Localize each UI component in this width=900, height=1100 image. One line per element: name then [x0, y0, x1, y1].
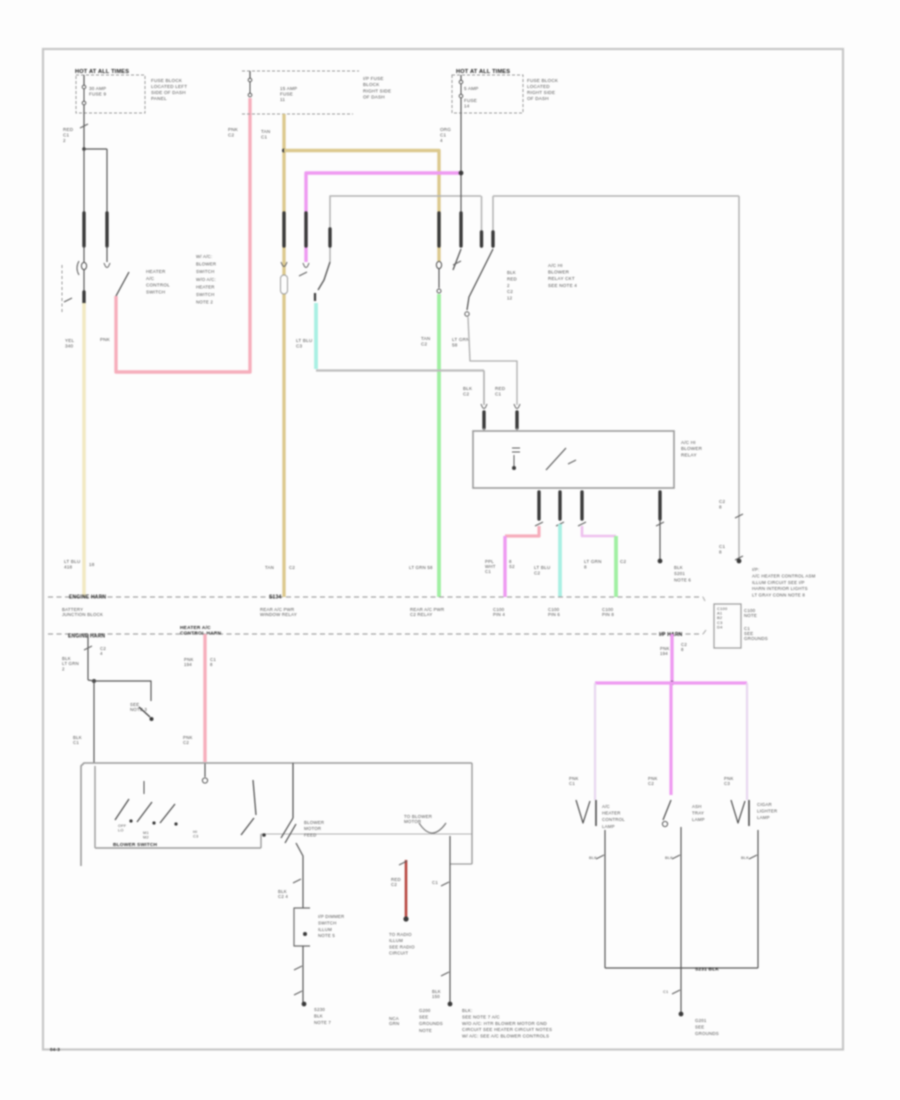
- component bracket: [294, 908, 310, 946]
- svg-text:CIGARLIGHTERLAMP: CIGARLIGHTERLAMP: [757, 802, 777, 820]
- svg-text:A/C HIBLOWERRELAY: A/C HIBLOWERRELAY: [681, 440, 703, 457]
- fusible link arc: [77, 261, 79, 275]
- connector thick segment on tan: [437, 213, 440, 246]
- fuse 3 terminal bottom: [459, 94, 463, 98]
- wire from lever down: [296, 843, 303, 875]
- svg-text:C100A1B2C3D4: C100A1B2C3D4: [717, 606, 728, 629]
- wire stub below connector: [438, 269, 440, 288]
- contact tick pole A: [314, 293, 316, 301]
- ground splice dot: [448, 1002, 453, 1007]
- wire below fuse block 3: [460, 113, 462, 212]
- switch blade 3: [160, 804, 175, 823]
- pink wire from line2 to blower switch: [203, 634, 206, 762]
- svg-text:PNKC2: PNKC2: [228, 127, 239, 137]
- contact circle: [465, 312, 469, 316]
- switch blade 1: [115, 799, 129, 820]
- svg-text:G201SEEGROUNDS: G201SEEGROUNDS: [695, 1018, 719, 1036]
- main lever blade: [241, 818, 254, 835]
- junction tan branch: [282, 149, 286, 153]
- wire long right side down: [738, 196, 740, 561]
- pole B left wire: [481, 196, 483, 248]
- ground merge bar: [605, 967, 758, 969]
- inline connector capsule on tan: [281, 275, 288, 294]
- wire from fuse block 1: [83, 113, 85, 148]
- elbow wire to switch arm: [94, 681, 151, 701]
- svg-text:TAN: TAN: [265, 565, 274, 570]
- connector thick segment on magenta: [304, 213, 307, 246]
- wire: [302, 875, 304, 908]
- connector thick segment: [480, 232, 483, 246]
- stub inside box: [204, 763, 206, 777]
- fuse 3 lead bottom: [460, 98, 462, 113]
- svg-text:ASHTRAYLAMP: ASHTRAYLAMP: [692, 804, 705, 822]
- ground splice dot: [302, 1002, 307, 1007]
- box bottom edge: [95, 847, 261, 849]
- wire: [83, 246, 85, 262]
- gray wire horizontal: [316, 369, 484, 371]
- connector tick: [441, 972, 449, 976]
- splice dot right wire: [737, 559, 742, 564]
- svg-text:W/ A/C:BLOWERSWITCHW/O A/C:HEA: W/ A/C:BLOWERSWITCHW/O A/C:HEATERSWITCHN…: [196, 254, 216, 305]
- svg-text:C1SEEGROUNDS: C1SEEGROUNDS: [744, 626, 768, 641]
- svg-text:LT GRN58: LT GRN58: [452, 337, 470, 347]
- connector tick: [84, 646, 92, 650]
- lamp 2 bulb circle: [662, 821, 667, 826]
- junction node split: [82, 147, 86, 151]
- cyan wire to bus: [558, 524, 562, 597]
- connector thick segment pin 2: [515, 412, 518, 428]
- connector ellipse tan wire: [436, 261, 441, 268]
- wire to ground splice: [302, 946, 304, 1002]
- fuse 2 lead: [249, 71, 251, 78]
- wire into box right side: [292, 763, 294, 818]
- junction dot: [92, 679, 96, 683]
- svg-text:C2: C2: [289, 565, 295, 570]
- svg-text:REDC1: REDC1: [495, 386, 506, 396]
- svg-text:C18: C18: [210, 657, 216, 667]
- fuse block 1 dashed box: [76, 75, 145, 113]
- svg-text:C24: C24: [100, 646, 106, 656]
- connector tick: [735, 556, 743, 560]
- svg-text:FUSE BLOCKLOCATEDRIGHT SIDEOF: FUSE BLOCKLOCATEDRIGHT SIDEOF DASH: [527, 78, 559, 101]
- tick: [399, 861, 407, 865]
- tick: [596, 855, 604, 859]
- open contact circle: [202, 778, 207, 783]
- wire left branch down: [83, 149, 85, 212]
- right lever blade 2: [285, 824, 296, 843]
- tick: [672, 855, 680, 859]
- box right edge: [471, 763, 473, 864]
- svg-text:TO BLOWERMOTOR: TO BLOWERMOTOR: [404, 814, 432, 824]
- svg-text:15 AMPFUSE11: 15 AMPFUSE11: [280, 86, 297, 102]
- svg-text:30 AMPFUSE 9: 30 AMPFUSE 9: [89, 86, 107, 96]
- relay pin 1 thick segment: [537, 492, 540, 519]
- svg-text:C100NOTE: C100NOTE: [744, 608, 757, 618]
- connector thick segment left branch: [82, 213, 85, 246]
- arrow end dot: [150, 717, 154, 721]
- lavender lamp feed right: [746, 683, 748, 800]
- lamp 3 electrode bar: [748, 800, 750, 826]
- connector tick: [735, 514, 743, 518]
- svg-text:BLKC2: BLKC2: [463, 386, 473, 396]
- svg-text:HOT AT ALL TIMES: HOT AT ALL TIMES: [75, 69, 129, 75]
- blower switch box top and left exit wire: [81, 763, 472, 866]
- svg-text:BLK: BLK: [741, 855, 749, 860]
- svg-text:C18: C18: [719, 544, 726, 554]
- switch blade pole A: [318, 262, 330, 290]
- pin tick: [656, 522, 664, 526]
- svg-text:PNK: PNK: [100, 337, 111, 342]
- svg-text:A/CHEATERCONTROLLAMP: A/CHEATERCONTROLLAMP: [602, 804, 625, 829]
- svg-text:HOT AT ALL TIMES: HOT AT ALL TIMES: [456, 69, 510, 75]
- switch blade long arm: [467, 249, 493, 310]
- svg-text:BLK: BLK: [589, 855, 597, 860]
- wire split horizontal: [84, 148, 107, 150]
- svg-text:REAR A/C PWRWINDOW RELAY: REAR A/C PWRWINDOW RELAY: [260, 607, 297, 617]
- pink elbow from relay pin: [505, 526, 539, 536]
- pale yellow wire to bus: [82, 303, 86, 597]
- svg-text:REDC2: REDC2: [391, 877, 401, 887]
- svg-text:REAR A/C PWRC2 RELAY: REAR A/C PWRC2 RELAY: [410, 607, 444, 617]
- svg-text:C1: C1: [663, 989, 669, 994]
- connector tick: [441, 882, 449, 886]
- svg-text:PPLWHTC1: PPLWHTC1: [485, 559, 496, 574]
- svg-text:BLKC1: BLKC1: [73, 735, 82, 745]
- fuse 3 element: [460, 84, 462, 94]
- wire right branch down: [106, 149, 108, 212]
- harness boundary line 2: [48, 633, 703, 635]
- svg-text:I/P DIMMERSWITCHILLUMNOTE 5: I/P DIMMERSWITCHILLUMNOTE 5: [318, 914, 344, 938]
- junction dot magenta tap: [459, 171, 464, 176]
- short thick connector: [82, 292, 85, 303]
- lamp 2 filament: [663, 800, 671, 820]
- pink wire U path from switch to I/P fuse: [116, 98, 250, 372]
- box bottom right segment: [261, 833, 472, 835]
- tick: [749, 855, 757, 859]
- svg-text:OFFLO: OFFLO: [118, 823, 127, 832]
- svg-text:M1M2: M1M2: [143, 830, 149, 839]
- svg-text:C100PIN 8: C100PIN 8: [602, 607, 614, 617]
- tan branch elbow: [284, 151, 439, 262]
- splice dot: [403, 916, 408, 921]
- svg-text:LT BLU418: LT BLU418: [64, 559, 80, 569]
- gray wire down to relay pin 1: [483, 371, 485, 406]
- contact dot: [174, 822, 177, 825]
- wire elbow pole A: [330, 196, 481, 262]
- svg-text:PNKC2: PNKC2: [648, 776, 658, 786]
- line 1 end hook: [703, 597, 705, 601]
- pin tick: [535, 522, 543, 526]
- connector tick: [294, 991, 302, 995]
- relay pin 2 thick segment: [558, 492, 561, 519]
- contact dot: [152, 821, 155, 824]
- inline connector cup on tan: [281, 262, 287, 267]
- tan wire from I/P fuse to bus: [282, 114, 285, 597]
- inline connector: [514, 404, 520, 409]
- svg-text:LT GRN 58: LT GRN 58: [409, 565, 433, 570]
- svg-text:FUSE14: FUSE14: [464, 98, 477, 108]
- contact post: [143, 781, 145, 794]
- switch contact: [303, 263, 309, 268]
- svg-text:BLKLT GRN2: BLKLT GRN2: [62, 656, 79, 671]
- tick: [672, 990, 680, 994]
- svg-text:ENGINE HARN: ENGINE HARN: [68, 634, 105, 640]
- lamp 1 electrode bar: [595, 800, 597, 826]
- connector tick: [293, 879, 301, 883]
- svg-text:BLKC2 4: BLKC2 4: [278, 889, 288, 899]
- lamp 3 filament V: [731, 800, 745, 823]
- svg-text:PNK194: PNK194: [660, 646, 670, 656]
- lavender lamp feed left: [594, 683, 596, 800]
- svg-text:FUSE BLOCKLOCATED LEFTSIDE OF: FUSE BLOCKLOCATED LEFTSIDE OF DASHPANEL: [151, 78, 187, 101]
- component dot: [303, 932, 307, 936]
- svg-text:G200SEEGROUNDSNOTE: G200SEEGROUNDSNOTE: [419, 1008, 443, 1033]
- svg-text:C100PIN 4: C100PIN 4: [493, 607, 505, 617]
- svg-text:I/P FUSEBLOCKRIGHT SIDEOF DASH: I/P FUSEBLOCKRIGHT SIDEOF DASH: [363, 76, 391, 100]
- fuse 2 element: [249, 82, 251, 93]
- fuse 3 terminal top: [459, 80, 463, 84]
- magenta distribution bar: [595, 681, 747, 684]
- relay internal marks: [512, 448, 520, 452]
- connector C100 box: [714, 604, 741, 648]
- svg-text:A/C HIBLOWERRELAY CKTSEE NOTE: A/C HIBLOWERRELAY CKTSEE NOTE 4: [548, 263, 577, 288]
- connector thick segment: [459, 213, 462, 246]
- connector ellipse left branch: [81, 262, 86, 269]
- main lever post: [253, 780, 256, 815]
- svg-text:HIC3: HIC3: [193, 829, 198, 838]
- connector thick segment pole A: [328, 229, 331, 246]
- relay pin 4 thick segment: [658, 492, 661, 519]
- svg-text:PNK194: PNK194: [184, 657, 194, 667]
- inline connector: [481, 404, 487, 409]
- splice dot: [658, 559, 663, 564]
- svg-text:PNKC1: PNKC1: [569, 776, 579, 786]
- switch blade small: [453, 249, 461, 270]
- dark red wire stub: [405, 860, 408, 917]
- svg-text:ENGINE HARN: ENGINE HARN: [69, 595, 106, 601]
- contact tick: [299, 272, 307, 276]
- svg-text:8S2: 8S2: [509, 559, 515, 569]
- connector thick segment on tan main: [282, 213, 285, 246]
- I/P fuse block dashed bottom: [242, 113, 353, 115]
- tick: [64, 298, 72, 302]
- svg-text:BLOWERMOTORFEED: BLOWERMOTORFEED: [304, 820, 324, 837]
- relay internal node: [512, 466, 516, 470]
- svg-text:NCAGRN: NCAGRN: [389, 1016, 399, 1026]
- fuse 2 terminal bottom: [248, 93, 252, 97]
- relay internal blade: [546, 448, 566, 470]
- wire: [83, 270, 85, 291]
- right lever blade: [281, 818, 293, 838]
- svg-text:HEATER A/CCONTROL HARN: HEATER A/CCONTROL HARN: [180, 625, 222, 636]
- harness boundary line 1: [48, 596, 703, 598]
- line 2 end hook: [703, 630, 706, 634]
- connector thick segment: [491, 232, 494, 246]
- switch blade: [116, 272, 129, 296]
- svg-text:BLOWER SWITCH: BLOWER SWITCH: [113, 842, 158, 848]
- cyan wire from switch: [314, 303, 318, 369]
- svg-text:BATTERYJUNCTION BLOCK: BATTERYJUNCTION BLOCK: [62, 607, 103, 617]
- pole B right wire: [492, 196, 494, 248]
- relay pin 3 thick segment: [580, 492, 583, 519]
- svg-text:TANC1: TANC1: [261, 129, 270, 139]
- switch fixed contact: [104, 263, 110, 268]
- magenta wire elbow to switch: [306, 173, 461, 262]
- svg-text:SEENOTE 3: SEENOTE 3: [130, 702, 147, 712]
- wire elbow pole B horizontal: [493, 195, 739, 197]
- svg-text:C1: C1: [432, 880, 438, 885]
- svg-text:S230BLKNOTE 7: S230BLKNOTE 7: [314, 1007, 331, 1025]
- component dashed boundary: [61, 265, 63, 313]
- black wire below line2: [87, 634, 89, 680]
- box left edge: [94, 766, 96, 848]
- magenta wire to bus: [503, 536, 506, 597]
- connector tick C1: [80, 124, 88, 128]
- svg-text:18: 18: [89, 562, 95, 567]
- fuse 1 element: [83, 89, 85, 101]
- pin tick: [556, 522, 564, 526]
- svg-text:TANC2: TANC2: [421, 336, 430, 346]
- blower relay box: [473, 431, 674, 488]
- pin tick: [578, 522, 586, 526]
- ground splice dot: [679, 1012, 684, 1017]
- svg-text:LT GRN8: LT GRN8: [584, 559, 602, 569]
- lamp 1 filament V: [576, 800, 590, 823]
- svg-text:ORGC14: ORGC14: [440, 127, 451, 143]
- magenta wire below line2: [670, 634, 673, 683]
- pale magenta elbow from relay pin: [582, 526, 616, 536]
- svg-text:I/P:A/C HEATER CONTROL ASMILLU: I/P:A/C HEATER CONTROL ASMILLUM CIRCUIT …: [752, 567, 816, 598]
- svg-text:5 AMP: 5 AMP: [464, 86, 479, 91]
- lamp 3 return wire: [757, 830, 759, 968]
- svg-text:YEL340: YEL340: [65, 338, 75, 348]
- svg-text:C28: C28: [719, 499, 726, 509]
- fuse block 3 dashed box: [452, 75, 523, 113]
- fuse 1 terminal top: [82, 85, 86, 89]
- svg-text:PNKC2: PNKC2: [183, 735, 193, 745]
- wire down to blower switch box: [93, 681, 95, 763]
- svg-text:S134: S134: [269, 595, 281, 601]
- lamp 2 return wire: [680, 827, 682, 1013]
- relay internal contact: [568, 460, 576, 464]
- fuse 1 lead bottom: [83, 105, 85, 113]
- magenta lamp feed center: [669, 683, 672, 795]
- connector thick segment pin 1: [482, 412, 485, 428]
- lever contact dot: [262, 833, 266, 837]
- svg-text:PNKC3: PNKC3: [724, 776, 734, 786]
- green wire to bus: [614, 536, 618, 597]
- svg-text:LT BLUC3: LT BLUC3: [296, 338, 312, 348]
- contact circle: [437, 289, 441, 293]
- fuse 1 terminal bottom: [82, 101, 86, 105]
- connector thick segment right branch: [105, 213, 108, 246]
- svg-text:BLKS201NOTE 6: BLKS201NOTE 6: [674, 565, 691, 582]
- svg-text:C2: C2: [620, 559, 627, 564]
- junction dot: [670, 681, 674, 685]
- fuse 3 lead top: [460, 75, 462, 80]
- box exit jog to blower wire: [450, 863, 472, 865]
- connector tick: [294, 966, 302, 970]
- green wire down to bus: [437, 294, 441, 597]
- svg-text:REDC12: REDC12: [63, 127, 74, 143]
- svg-text:BLKRED2C212: BLKRED2C212: [507, 270, 517, 301]
- contact tick: [453, 261, 461, 265]
- svg-text:LT BLUC2: LT BLUC2: [534, 565, 550, 575]
- svg-text:C100PIN 6: C100PIN 6: [548, 607, 560, 617]
- fuse 2 terminal top: [248, 78, 252, 82]
- wire from contact to relay pin 2: [468, 317, 517, 405]
- svg-text:C28: C28: [681, 642, 687, 652]
- I/P fuse block dashed top: [242, 70, 359, 72]
- contact dot: [129, 819, 132, 822]
- reference arrow: [139, 707, 150, 717]
- svg-text:HEATERA/CCONTROLSWITCH: HEATERA/CCONTROLSWITCH: [146, 269, 170, 294]
- svg-text:TO RADIOILLUMSEE RADIOCIRCUIT: TO RADIOILLUMSEE RADIOCIRCUIT: [389, 932, 415, 956]
- lamp 1 return wire: [604, 830, 606, 968]
- switch blade 2: [137, 802, 152, 822]
- black wire from relay pin 4: [659, 519, 661, 559]
- svg-text:BLK:SEE NOTE 7 A/CW/O A/C: HTR: BLK:SEE NOTE 7 A/CW/O A/C: HTR BLOWER MO…: [462, 1008, 552, 1039]
- svg-text:BLK: BLK: [665, 855, 673, 860]
- blower motor connector arc: [419, 823, 446, 833]
- blower motor ground wire: [449, 836, 451, 1003]
- relay coil lead: [513, 455, 515, 466]
- fuse 1 lead top: [83, 75, 85, 85]
- wire: [106, 246, 108, 262]
- svg-text:S231 BLK: S231 BLK: [695, 967, 719, 973]
- box bottom jog: [260, 834, 262, 848]
- svg-text:04-3: 04-3: [50, 1047, 60, 1052]
- svg-text:BLK150: BLK150: [432, 989, 441, 999]
